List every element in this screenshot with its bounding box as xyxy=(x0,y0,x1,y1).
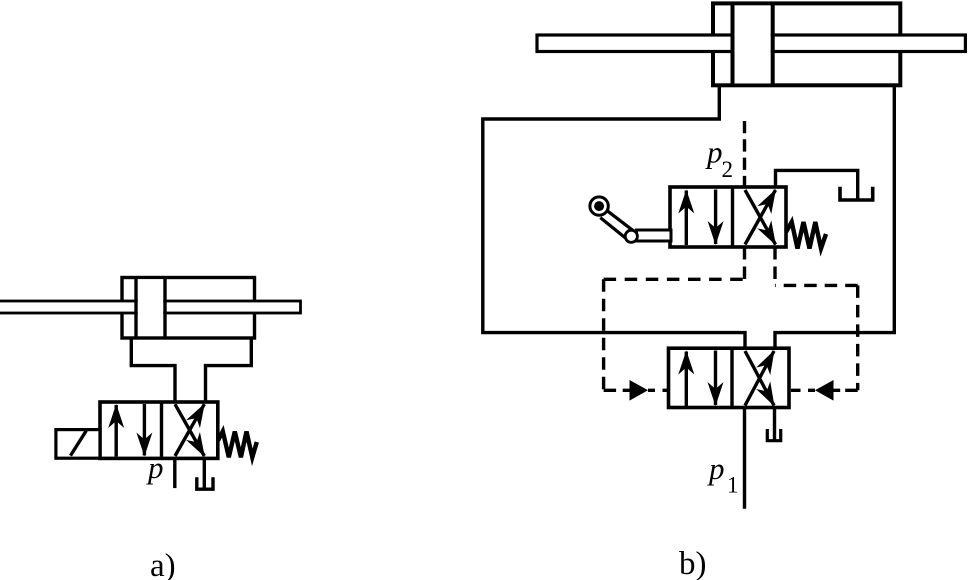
label p2 xyxy=(705,135,733,183)
svg-text:p: p xyxy=(707,451,725,486)
label b) xyxy=(679,546,707,580)
valve V1 return spring xyxy=(218,431,257,457)
label p xyxy=(146,450,164,485)
pilot valve V2 up-flow arrow xyxy=(685,191,688,246)
main valve V3 down-flow arrow xyxy=(714,351,717,406)
svg-text:1: 1 xyxy=(727,473,739,498)
tank symbol T1 xyxy=(197,477,213,489)
pilot valve V2 roller lever actuator xyxy=(590,197,671,242)
pilot line: V2 right output to V3 right pilot (dashed) xyxy=(775,247,858,390)
pilot arrowhead into V3 right xyxy=(815,380,834,401)
pilot valve V2 down-flow arrow xyxy=(714,190,717,245)
tank symbol T2 xyxy=(840,187,873,200)
main valve V3 body (impulse valve) xyxy=(669,348,790,407)
valve V1 manual actuator xyxy=(56,430,100,459)
label a) xyxy=(150,548,176,580)
cylinder A piston rod xyxy=(0,301,301,313)
valve V1 body (4/2 directional valve) xyxy=(100,402,218,458)
cylinder B body xyxy=(713,3,900,85)
pilot arrowhead into V3 left xyxy=(630,380,649,401)
wire: pressure port p xyxy=(173,458,176,488)
svg-text:p: p xyxy=(705,135,723,170)
svg-text:2: 2 xyxy=(722,157,734,182)
pilot valve V2 crossed arrows xyxy=(745,190,776,245)
main valve V3 up-flow arrow xyxy=(685,352,688,407)
cylinder B piston rod xyxy=(537,35,965,52)
pilot line: V2 left output to V3 left pilot (dashed) xyxy=(604,247,745,390)
tank symbol T3 xyxy=(767,429,780,441)
pilot supply line p2 (dashed) xyxy=(743,121,746,187)
main valve V3 crossed arrows xyxy=(745,351,774,406)
wire: pilot valve V2 exhaust elbow to tank xyxy=(776,170,858,199)
valve V1 down-flow arrow (left position) xyxy=(143,404,146,456)
label p1 xyxy=(707,451,739,498)
wire: supply port p1 xyxy=(743,408,746,509)
wire: cylinder A right port to valve V1 port B xyxy=(206,338,252,402)
svg-text:a): a) xyxy=(150,548,176,580)
pilot valve V2 return spring xyxy=(786,222,826,249)
pilot valve V2 body xyxy=(670,187,786,247)
svg-text:b): b) xyxy=(679,546,707,580)
wire: exhaust port to tank xyxy=(203,458,206,487)
wire: V3 exhaust to tank xyxy=(773,408,776,440)
wire: cylinder B left port around to valve V3 left output xyxy=(483,86,745,349)
valve V1 up-flow arrow (left position) xyxy=(114,405,117,457)
cylinder A piston xyxy=(136,278,165,339)
valve V1 crossed arrows (right position) xyxy=(175,404,204,456)
cylinder B piston xyxy=(733,3,773,85)
svg-text:p: p xyxy=(146,450,164,485)
wire: cylinder A left port to valve V1 port A xyxy=(131,338,175,402)
wire: cylinder B right port to valve V3 right output xyxy=(775,86,894,349)
cylinder A body xyxy=(122,278,255,339)
